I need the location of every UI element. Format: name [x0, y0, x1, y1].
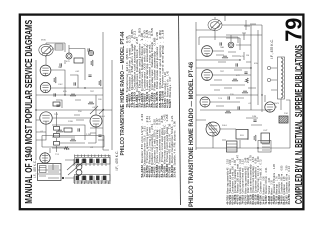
svg-text:OSC: OSC: [58, 84, 63, 86]
svg-text:59-6977 Wave trap a . 0.57: 59-6977 Wave trap a . 0.57: [168, 76, 172, 108]
svg-text:35Z5: 35Z5: [274, 103, 280, 105]
svg-text:COMPILED BY M. N. BEITMAN, SU: COMPILED BY M. N. BEITMAN, SUPREME PUBLI…: [294, 45, 305, 204]
svg-text:33-4750 Oscillator coil .: 33-4750 Oscillator coil . 0.14: [287, 166, 291, 205]
svg-text:OUT: OUT: [263, 130, 268, 132]
svg-text:10M: 10M: [252, 116, 256, 118]
svg-text:I.F., 455 K.C.: I.F., 455 K.C.: [270, 39, 274, 59]
svg-text:220K: 220K: [68, 121, 74, 123]
svg-text:P.M.: P.M.: [284, 113, 289, 115]
svg-text:50L6: 50L6: [100, 116, 106, 118]
svg-text:47K: 47K: [236, 75, 240, 77]
svg-text:I.F., 455 K.C.: I.F., 455 K.C.: [33, 160, 37, 178]
svg-text:A.C.: A.C.: [66, 148, 71, 151]
svg-text:I.F., 455 K.C.: I.F., 455 K.C.: [115, 151, 119, 171]
svg-text:33-2796 Speaker, 4 in. P.M. d: 33-2796 Speaker, 4 in. P.M. dynamic . 0.…: [173, 121, 177, 178]
svg-text:79: 79: [281, 18, 307, 42]
svg-text:PHILCO TRANSITONE HOME RADIO —: PHILCO TRANSITONE HOME RADIO — MODEL PT-…: [189, 61, 195, 207]
svg-text:1M: 1M: [246, 55, 249, 57]
svg-text:MOD: MOD: [41, 40, 47, 42]
svg-text:FLD: FLD: [240, 135, 245, 137]
svg-text:50L6: 50L6: [222, 125, 228, 127]
